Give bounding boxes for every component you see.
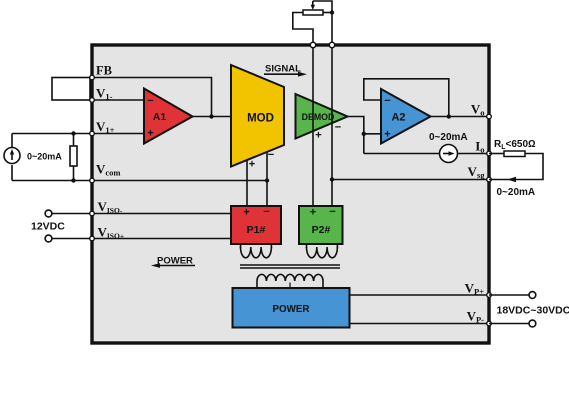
svg-text:FB: FB <box>96 64 112 78</box>
op-amp A2 <box>381 89 431 144</box>
pin VISO+ <box>90 236 95 241</box>
svg-text:+: + <box>384 129 390 141</box>
svg-text:−: − <box>263 206 269 218</box>
svg-text:+: + <box>147 128 153 140</box>
wire A2 - input with feedback <box>364 79 449 117</box>
wire FB <box>92 78 212 117</box>
svg-text:SIGNAL: SIGNAL <box>265 64 301 75</box>
current source 0~20mA (output) <box>440 145 458 163</box>
svg-text:+: + <box>315 130 321 142</box>
svg-text:+: + <box>249 159 255 171</box>
wire V1+ <box>12 133 144 135</box>
svg-text:A1: A1 <box>153 111 167 123</box>
P2# power module <box>299 206 343 244</box>
wire Io <box>364 153 440 155</box>
demodulator DEMOD <box>296 94 348 139</box>
P1# power module <box>231 206 281 244</box>
wire V1- <box>92 99 144 101</box>
svg-text:A2: A2 <box>391 112 405 124</box>
pin FB <box>90 75 95 80</box>
load resistor RL <box>489 153 504 155</box>
pin V1- <box>90 98 95 103</box>
transformer T1 secondary coil <box>257 274 323 288</box>
pin Io <box>487 151 492 156</box>
pin Vo <box>487 114 492 119</box>
junction Vcom / MOD- <box>265 178 269 182</box>
pin top right <box>329 42 334 47</box>
wire DEMOD - vertical <box>331 48 333 207</box>
wire MOD - to P1# <box>266 152 268 206</box>
wire A1 out <box>193 116 232 118</box>
svg-text:12VDC: 12VDC <box>31 221 65 233</box>
wire MOD + to P1# <box>246 160 248 206</box>
junction Vsg / DEMOD- <box>330 177 334 181</box>
svg-text:−: − <box>384 95 390 107</box>
svg-text:+: + <box>243 207 249 219</box>
main isolation amplifier body <box>92 45 489 343</box>
wire A2 + input <box>364 133 381 135</box>
wire VISO- <box>52 213 231 215</box>
pin Vcom <box>90 178 95 183</box>
wire to 18VDC terminal top <box>489 294 529 296</box>
wire Vo <box>431 116 490 118</box>
transformer T1 core <box>240 264 340 266</box>
svg-text:DEMOD: DEMOD <box>302 112 335 122</box>
pin VISO- <box>90 211 95 216</box>
svg-text:P2#: P2# <box>312 224 331 236</box>
svg-text:+: + <box>310 207 316 219</box>
svg-text:−: − <box>335 122 341 134</box>
junction feedback/Vo <box>447 114 451 118</box>
wire VP- <box>350 323 490 325</box>
terminal 12VDC top <box>45 210 52 217</box>
terminal 12VDC bottom <box>45 235 52 242</box>
wire to 18VDC terminal bottom <box>489 323 529 325</box>
junction FB/A1 out <box>209 114 213 118</box>
svg-text:MOD: MOD <box>247 113 274 125</box>
svg-text:−: − <box>147 95 153 107</box>
input shunt resistor <box>70 146 77 166</box>
wire DEMOD out <box>348 117 364 154</box>
feedback resistor (FB to V1-) <box>52 78 90 101</box>
pin Vsg <box>487 177 492 182</box>
wire Vcom <box>12 180 267 182</box>
pin VP+ <box>487 293 492 298</box>
pin VP- <box>487 321 492 326</box>
terminal 18VDC bottom <box>529 320 536 327</box>
svg-text:RL<650Ω: RL<650Ω <box>494 139 536 151</box>
pin top left <box>310 42 315 47</box>
svg-text:0~20mA: 0~20mA <box>429 132 468 143</box>
junction pot right node <box>330 10 334 14</box>
junction A2+/DEMOD out <box>362 132 366 136</box>
wire VP+ <box>350 294 490 296</box>
wire VISO+ <box>52 238 231 240</box>
modulator MOD <box>231 65 284 167</box>
pin V1+ <box>90 131 95 136</box>
svg-text:0~20mA: 0~20mA <box>497 187 536 198</box>
junction Vcom/resistor <box>71 178 75 182</box>
svg-text:P1#: P1# <box>247 224 266 236</box>
wire Vsg <box>332 179 489 181</box>
transformer T1 primary coil (under P2#) <box>307 244 338 258</box>
junction V1+/resistor <box>71 131 75 135</box>
svg-text:−: − <box>329 206 335 218</box>
wire DEMOD + vertical <box>312 48 314 207</box>
svg-text:18VDC~30VDC: 18VDC~30VDC <box>497 305 569 317</box>
transformer T1 primary coil (under P1#) <box>241 244 272 258</box>
current source 0~20mA (input) <box>11 134 13 150</box>
potentiometer (external trim) <box>303 10 323 15</box>
svg-text:POWER: POWER <box>272 304 309 315</box>
terminal 18VDC top <box>529 292 536 299</box>
svg-text:−: − <box>268 149 274 161</box>
svg-text:0~20mA: 0~20mA <box>27 152 62 162</box>
POWER block <box>233 288 350 328</box>
op-amp A1 <box>144 89 193 144</box>
